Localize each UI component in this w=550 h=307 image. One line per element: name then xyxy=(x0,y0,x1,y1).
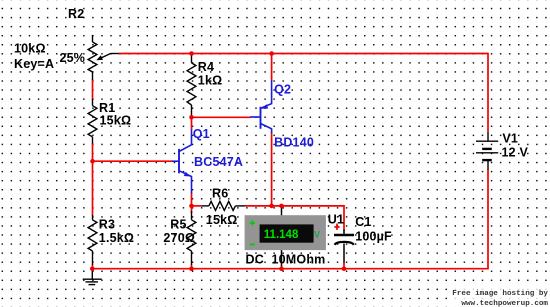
wire right rail lower xyxy=(487,169,489,269)
svg-text:Q2: Q2 xyxy=(274,82,291,96)
wire left vertical R1-to-R3 xyxy=(92,143,94,216)
junction node top Q2 emitter xyxy=(269,51,274,56)
battery V1 xyxy=(476,132,498,170)
wire R5 bottom stub xyxy=(191,265,193,269)
svg-text:C1: C1 xyxy=(355,215,371,229)
svg-text:12 V: 12 V xyxy=(502,145,529,159)
wire Q2 collector down xyxy=(271,132,273,206)
capacitor C1 plus polarity mark xyxy=(334,224,339,230)
svg-text:10MOhm: 10MOhm xyxy=(272,252,326,266)
svg-text:U1: U1 xyxy=(328,212,344,226)
svg-text:R4: R4 xyxy=(198,60,214,74)
wire multimeter bottom stub xyxy=(281,266,283,269)
capacitor C1 xyxy=(334,230,354,263)
resistor R5 xyxy=(187,211,196,265)
junction node output multimeter xyxy=(279,204,284,209)
svg-text:R2: R2 xyxy=(68,7,84,21)
transistor Q1 emitter arrow xyxy=(184,172,191,177)
svg-text:1.5kΩ: 1.5kΩ xyxy=(99,231,134,245)
potentiometer R2 wiper arrow xyxy=(96,55,103,60)
svg-text:V: V xyxy=(314,229,321,240)
svg-text:10kΩ: 10kΩ xyxy=(14,42,46,56)
junction node output left xyxy=(189,204,194,209)
svg-text:R6: R6 xyxy=(212,187,228,201)
resistor R6 xyxy=(201,201,245,210)
wire bottom rail xyxy=(92,268,489,270)
svg-text:270Ω: 270Ω xyxy=(163,231,195,245)
svg-text:R3: R3 xyxy=(99,218,115,232)
svg-text:Key=A: Key=A xyxy=(14,57,54,71)
transistor Q2 xyxy=(250,80,272,133)
wire Q2 base xyxy=(192,116,251,118)
svg-text:1kΩ: 1kΩ xyxy=(198,73,223,87)
transistor Q1 xyxy=(172,130,192,194)
multimeter plus terminal mark xyxy=(250,221,255,226)
wire Q1 emitter down xyxy=(191,193,193,206)
wire right rail upper xyxy=(487,53,489,132)
junction node bottom multimeter xyxy=(279,266,284,271)
junction node R4-Q2 base xyxy=(189,115,194,120)
wire R5 top stub xyxy=(191,206,193,213)
svg-text:15kΩ: 15kΩ xyxy=(100,113,132,127)
svg-text:15kΩ: 15kΩ xyxy=(206,213,238,227)
svg-text:11.148: 11.148 xyxy=(264,229,299,241)
wire output rail left xyxy=(192,205,202,207)
resistor R3 xyxy=(88,215,97,265)
multimeter display xyxy=(260,224,314,242)
svg-text:BC547A: BC547A xyxy=(194,155,243,169)
multimeter minus terminal mark xyxy=(250,244,255,246)
svg-text:DC: DC xyxy=(246,252,264,266)
junction node bottom R5 xyxy=(189,266,194,271)
wire output rail right to C1 corner xyxy=(245,206,344,231)
wire Q1 base xyxy=(93,160,173,162)
transistor Q2 emitter arrow xyxy=(262,104,269,109)
junction node output Q2 collector xyxy=(269,204,274,209)
multimeter bottom lead xyxy=(281,250,283,266)
multimeter top lead xyxy=(281,206,283,215)
svg-text:R5: R5 xyxy=(170,218,186,232)
svg-text:100µF: 100µF xyxy=(355,229,392,243)
svg-text:BD140: BD140 xyxy=(274,136,314,150)
resistor R4 xyxy=(187,56,196,116)
junction node ground xyxy=(90,266,95,271)
svg-text:Free image hosting by: Free image hosting by xyxy=(452,290,548,298)
wire C1 bottom stub xyxy=(343,262,345,269)
svg-text:V1: V1 xyxy=(502,132,518,146)
junction node top R4 xyxy=(189,51,194,56)
svg-text:25%: 25% xyxy=(60,51,86,65)
resistor R1 xyxy=(88,99,97,144)
wire top rail xyxy=(119,53,488,55)
wire left vertical pot-to-R1 xyxy=(92,80,94,100)
junction node bottom C1 xyxy=(342,266,347,271)
wire Q1 collector stub xyxy=(191,117,193,130)
junction node Q1 base xyxy=(90,159,95,164)
wire left vertical R3-to-bottom xyxy=(92,265,94,269)
potentiometer R2 xyxy=(88,35,119,80)
svg-text:Q1: Q1 xyxy=(193,127,210,141)
ground symbol xyxy=(83,269,102,285)
multimeter U1 body xyxy=(245,215,326,250)
wire Q2 emitter to rail xyxy=(271,54,273,81)
watermark overlay xyxy=(448,284,550,307)
svg-text:www.techpowerup.com: www.techpowerup.com xyxy=(461,300,548,307)
